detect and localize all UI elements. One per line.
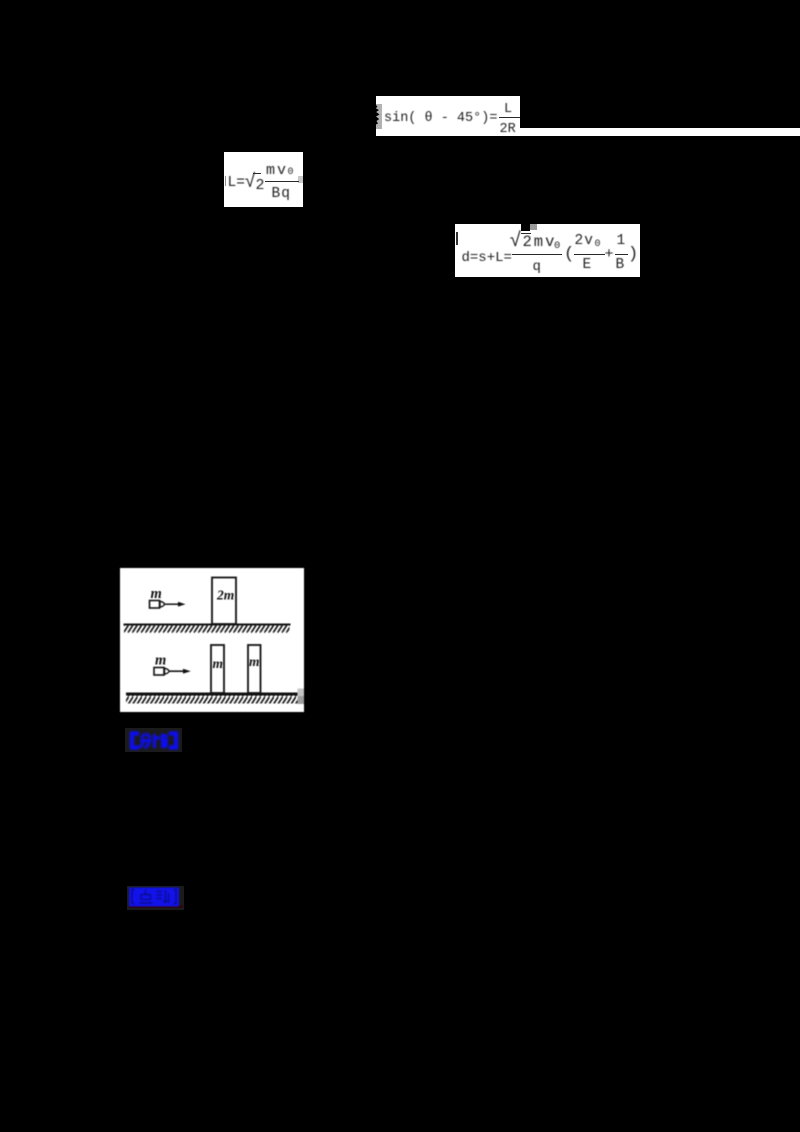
svg-text:2m: 2m (216, 588, 234, 603)
svg-text:m: m (155, 653, 166, 669)
svg-text:m: m (213, 656, 224, 671)
svg-text:m: m (249, 654, 260, 669)
